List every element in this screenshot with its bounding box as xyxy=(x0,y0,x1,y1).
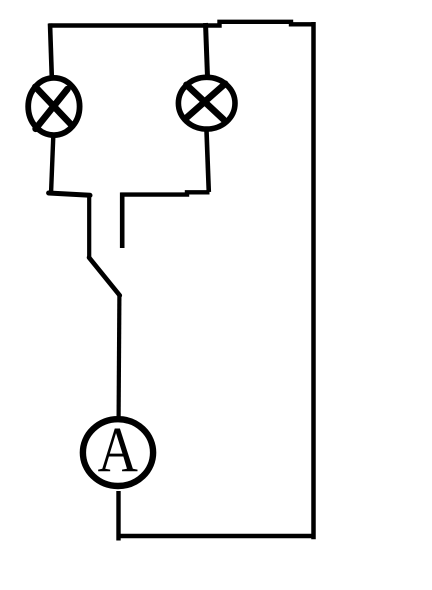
wire: right side vertical from top-right corner down to bottom-right corner xyxy=(311,22,316,539)
lamp L1 (left bulb) xyxy=(28,78,79,135)
wire: right lamp top lead xyxy=(206,23,208,77)
wire: bottom bus from ammeter to bottom-right corner xyxy=(117,534,316,539)
switch S1: open blade (diagonal) xyxy=(89,258,120,296)
ammeter A1 xyxy=(83,419,153,486)
wire: left lamp bottom lead xyxy=(51,136,53,194)
wire: right lamp bottom lead xyxy=(207,131,209,193)
wire: left lamp top lead xyxy=(50,24,52,78)
switch S1: fixed open contact (hanging vertical) xyxy=(120,193,125,249)
svg-text:A: A xyxy=(98,415,139,486)
wire: from switch blade down to ammeter xyxy=(116,294,121,417)
wire: top bus from left lamp across to top-right corner xyxy=(49,22,314,26)
wire: horizontal from open contact to right lamp lead xyxy=(121,192,210,194)
lamp L2 (right bulb) xyxy=(178,77,235,129)
switch S1: pivot-side vertical lead xyxy=(87,195,91,258)
wire: horizontal from left lamp lead to switch pivot xyxy=(49,193,90,195)
wire: ammeter bottom lead (with small tail at junction) xyxy=(116,491,120,541)
